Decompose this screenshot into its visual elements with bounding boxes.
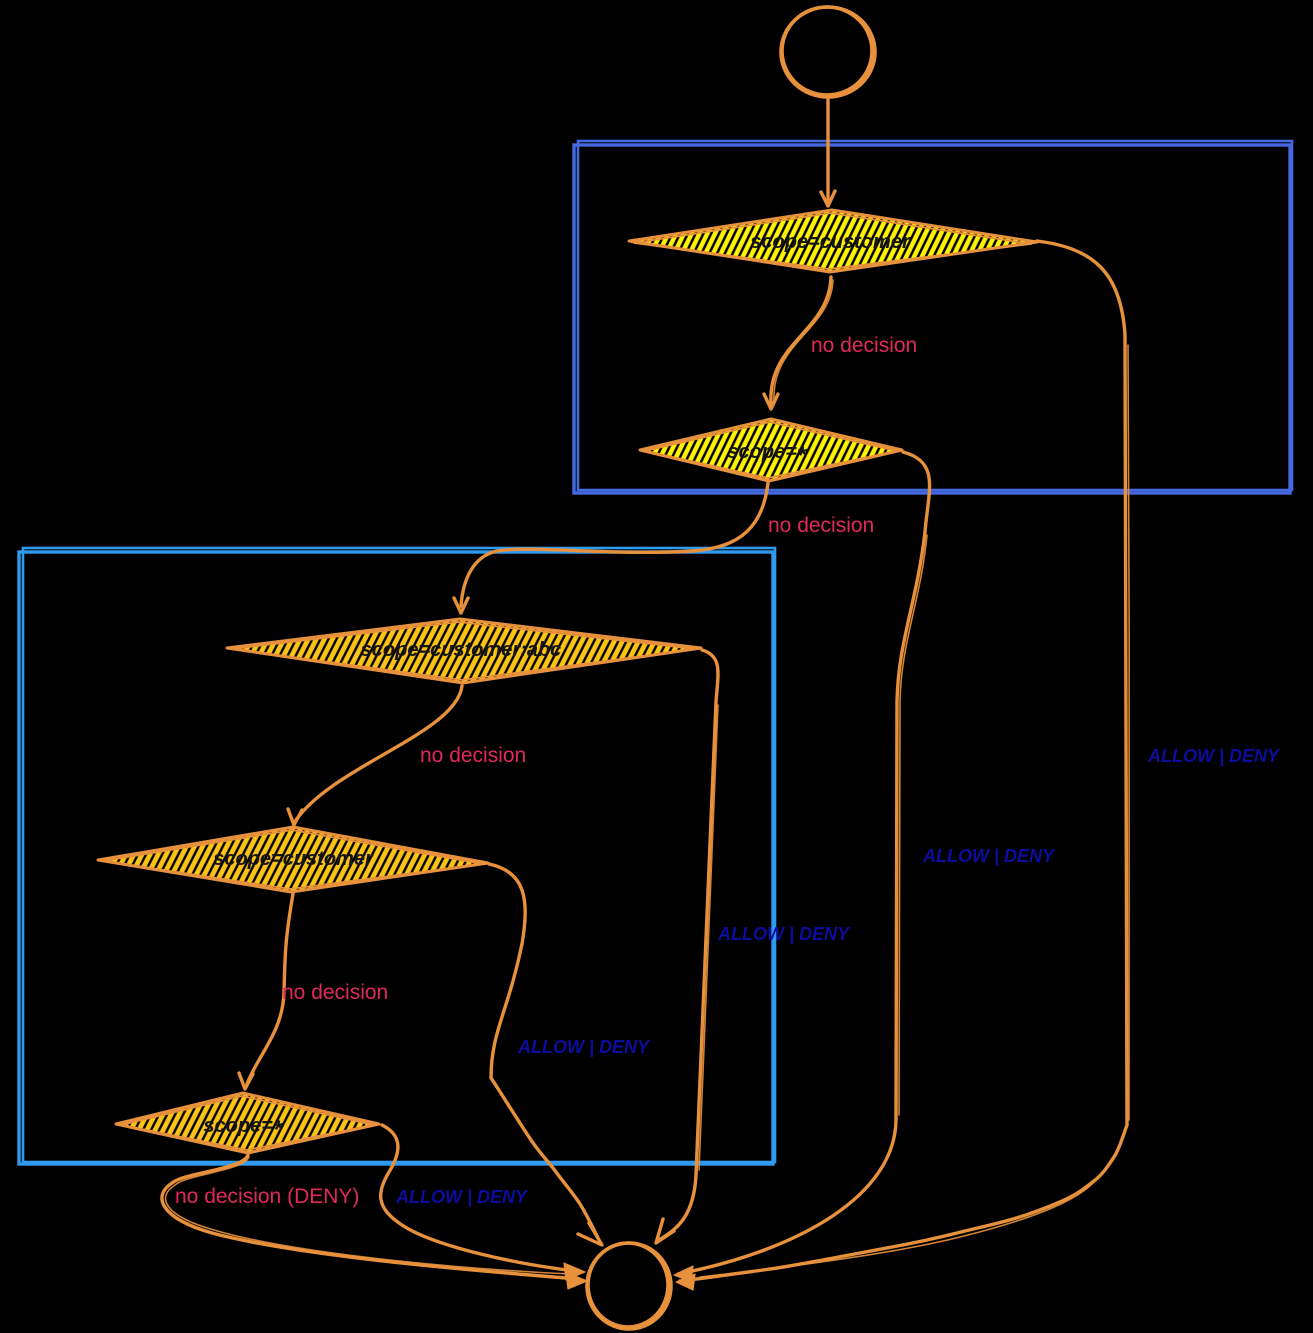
svg-text:no decision: no decision [282,981,388,1004]
svg-text:no decision (DENY): no decision (DENY) [175,1185,359,1208]
svg-text:scope=customer:abc: scope=customer:abc [361,639,562,661]
svg-text:scope=customer: scope=customer [750,231,911,253]
svg-text:no decision: no decision [420,744,526,767]
svg-text:ALLOW | DENY: ALLOW | DENY [922,846,1056,866]
svg-text:scope=customer: scope=customer [213,848,374,870]
svg-text:ALLOW | DENY: ALLOW | DENY [517,1037,651,1057]
svg-text:no decision: no decision [768,514,874,537]
svg-text:no decision: no decision [811,334,917,357]
svg-text:ALLOW | DENY: ALLOW | DENY [717,924,851,944]
svg-text:ALLOW | DENY: ALLOW | DENY [395,1187,529,1207]
svg-text:ALLOW | DENY: ALLOW | DENY [1147,746,1281,766]
